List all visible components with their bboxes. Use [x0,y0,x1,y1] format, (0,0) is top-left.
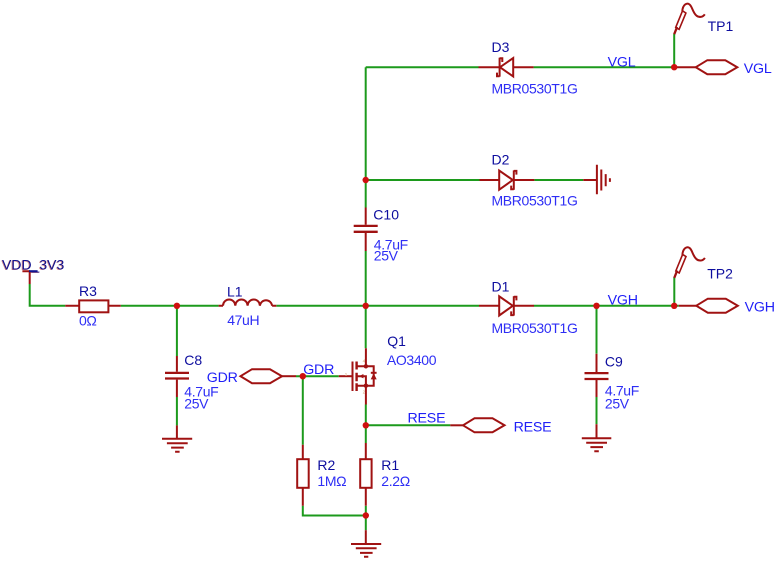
wire main rail L1 to D1 [276,305,479,307]
wire C8 to ground [176,397,178,425]
svg-text:MBR0530T1G: MBR0530T1G [492,80,578,96]
wire VDD_3V3 stem to main rail [30,284,66,306]
test point TP1 [674,4,733,35]
capacitor C9 [585,353,639,411]
svg-text:D2: D2 [492,151,510,167]
wire D2 right to ground [534,179,583,181]
svg-text:VGH: VGH [745,299,775,315]
svg-text:TP2: TP2 [707,266,733,282]
svg-text:R2: R2 [317,457,335,473]
junction ground node [363,512,369,518]
wire RESE junction to R1 [365,425,367,443]
diode D3 MBR0530T1G [479,39,578,96]
wire R1 bottom to ground junction [365,506,367,516]
svg-text:C9: C9 [605,353,623,369]
svg-text:25V: 25V [605,396,630,412]
svg-text:VDD_3V3: VDD_3V3 [2,257,64,273]
wire TP2 drop [673,277,675,306]
wire main rail to Q1 drain [365,306,367,348]
svg-text:C10: C10 [373,207,399,223]
svg-text:GDR: GDR [303,362,334,378]
svg-text:Q1: Q1 [387,333,406,349]
svg-text:MBR0530T1G: MBR0530T1G [492,193,578,209]
svg-text:MBR0530T1G: MBR0530T1G [492,320,578,336]
svg-text:GDR: GDR [207,370,238,386]
svg-text:2.2Ω: 2.2Ω [381,473,410,489]
ground below C8 [162,425,192,451]
wire R2 bottom to ground junction [303,506,366,516]
wire center vertical top [365,67,367,180]
wire main rail R3 to L1 [121,305,219,307]
svg-text:D1: D1 [492,278,510,294]
inductor L1 [219,284,277,328]
port RESE [450,418,551,435]
ground below R1 R2 [351,516,381,557]
svg-text:25V: 25V [184,395,209,411]
svg-text:R3: R3 [79,283,97,299]
wire C9 to ground [596,397,598,424]
junction VGH node [671,303,677,309]
svg-text:25V: 25V [374,247,399,263]
wire main rail to C8 [176,306,178,356]
junction C8 node [174,303,180,309]
wire GDR to Q1 gate [296,375,339,377]
svg-text:VGL: VGL [608,54,636,70]
wire RESE junction to port [366,424,451,426]
test point TP2 [674,247,733,281]
ground right of D2 [583,165,610,195]
junction center node [363,303,369,309]
junction D2 node [363,177,369,183]
diode D2 MBR0530T1G [480,151,578,208]
port VGH [679,299,775,316]
wire GDR junction to R2 [302,376,304,445]
svg-text:R1: R1 [381,457,399,473]
wire Q1 source to RESE junction [365,405,367,426]
wire main rail to C9 [596,306,598,354]
junction RESE node [363,422,369,428]
resistor R2 [297,445,346,506]
capacitor C10 [354,207,408,264]
svg-text:RESE: RESE [408,410,446,426]
wire TP1 drop [673,34,675,67]
wire D2 left [366,179,480,181]
port VGL [676,60,772,77]
wire main rail D1 to VGH port [534,305,679,307]
svg-text:AO3400: AO3400 [387,352,437,368]
transistor Q1 AO3400 [339,333,437,404]
wire top rail to D3 [366,66,479,68]
junction C9 node [593,303,599,309]
svg-text:TP1: TP1 [708,18,734,34]
power flag VDD_3V3 [1,257,64,285]
svg-text:47uH: 47uH [227,312,259,328]
svg-text:0Ω: 0Ω [79,312,97,328]
svg-text:RESE: RESE [514,419,552,435]
svg-text:VGL: VGL [744,61,772,77]
wire node to C10 [365,180,367,208]
resistor R1 [360,443,410,506]
diode D1 MBR0530T1G [479,278,577,336]
resistor R3 [65,283,120,328]
svg-text:1MΩ: 1MΩ [317,473,346,489]
capacitor C8 [165,352,218,411]
port GDR [207,369,296,386]
svg-text:L1: L1 [227,284,243,300]
wire D3 to VGL junction [534,66,675,68]
wire C10 to main rail [365,251,367,306]
junction GDR node [300,373,306,379]
ground below C9 [582,424,612,451]
junction VGL [671,64,677,70]
svg-text:VGH: VGH [608,292,638,308]
svg-text:C8: C8 [184,352,202,368]
svg-text:D3: D3 [492,39,510,55]
